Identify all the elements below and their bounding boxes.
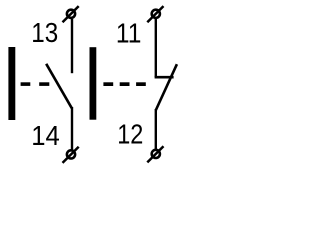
NC contact moving blade (11-12) — [156, 64, 177, 110]
terminal circle 11 — [147, 6, 163, 22]
NO contact moving blade (13-14) — [46, 64, 72, 108]
svg-text:12: 12 — [117, 119, 143, 150]
actuator bar (left pushbutton) — [8, 47, 15, 120]
wire: lead from terminal 13 — [71, 19, 73, 73]
svg-text:11: 11 — [116, 18, 141, 49]
mechanical linkage dashed line (right) — [103, 82, 145, 86]
terminal circle 12 — [147, 146, 163, 162]
terminal circle 14 — [63, 147, 79, 163]
NC contact fixed seat (11-12) — [155, 76, 174, 79]
actuator bar (right pushbutton) — [90, 47, 97, 120]
terminal circle 13 — [63, 6, 79, 22]
mechanical linkage dashed line (left) — [21, 82, 50, 86]
wire: lead from terminal 11 — [155, 19, 157, 77]
wire: lead to terminal 12 — [155, 109, 157, 150]
svg-text:14: 14 — [31, 120, 60, 151]
svg-text:13: 13 — [31, 17, 58, 48]
wire: lead to terminal 14 — [71, 107, 73, 150]
